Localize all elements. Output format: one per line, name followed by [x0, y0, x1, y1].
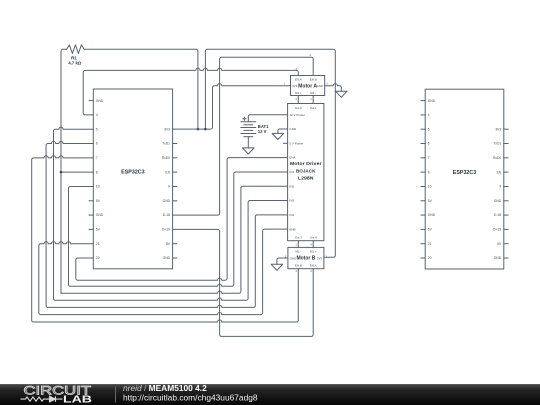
svg-text:GND: GND: [289, 127, 297, 131]
svg-text:EN: EN: [497, 170, 502, 174]
svg-text:D-18: D-18: [163, 213, 170, 217]
wire bottom row 3 to IN2: [61, 186, 288, 293]
wire net pin6 to IN4: [46, 141, 288, 307]
svg-text:Motor A: Motor A: [298, 83, 317, 89]
CircuitLab logo symbols (resistor + diode): [21, 396, 63, 402]
svg-text:TxD1: TxD1: [493, 142, 501, 146]
svg-text:GND: GND: [163, 199, 171, 203]
svg-text:Out 2: Out 2: [295, 106, 302, 110]
svg-text:EN A: EN A: [295, 77, 302, 81]
svg-text:6: 6: [96, 142, 98, 146]
wire net 3V3 to Motor B 3V3 via top: [205, 49, 335, 257]
footer bar: [0, 384, 540, 405]
svg-text:4.7 kΩ: 4.7 kΩ: [68, 61, 81, 66]
svg-text:GND: GND: [96, 213, 104, 217]
wire net pin20 to ENA: [76, 158, 288, 281]
svg-text:4: 4: [96, 113, 98, 117]
motor module M2 Motor B: [288, 247, 324, 268]
svg-text:IN1: IN1: [289, 170, 294, 174]
svg-text:4: 4: [428, 113, 430, 117]
svg-text:6: 6: [428, 142, 430, 146]
svg-text:GND: GND: [163, 256, 171, 260]
svg-text:12 V: 12 V: [258, 129, 267, 134]
svg-text:Out 1: Out 1: [310, 106, 317, 110]
node junction at pin 8: [60, 171, 63, 174]
wire battery positive to 12 V Power: [248, 115, 287, 122]
ground: battery negative: [247, 137, 249, 148]
svg-text:7: 7: [428, 156, 430, 160]
svg-text:M1 -: M1 -: [310, 91, 316, 95]
svg-text:GND: GND: [428, 99, 436, 103]
wire net pin10 to IN1: [69, 172, 288, 286]
svg-text:BOJACK: BOJACK: [296, 169, 316, 175]
svg-text:IN4: IN4: [289, 213, 294, 217]
svg-text:IN3: IN3: [289, 199, 294, 203]
svg-text:10: 10: [428, 185, 432, 189]
svg-text:10: 10: [96, 185, 100, 189]
wire net pin7 to Motor B EN B: [32, 156, 299, 322]
svg-text:L298N: L298N: [298, 175, 314, 181]
svg-text:nreid / MEAM5100 4.2: nreid / MEAM5100 4.2: [123, 383, 207, 393]
svg-text:21: 21: [96, 242, 100, 246]
svg-text:5: 5: [96, 127, 98, 131]
svg-text:EN B: EN B: [295, 264, 302, 268]
svg-text:3V3: 3V3: [317, 256, 323, 260]
wire net R1 right to 3V3 rail: [84, 49, 198, 129]
svg-text:EN: EN: [165, 170, 170, 174]
ground: motor driver GND pin: [278, 129, 288, 133]
svg-text:http://circuitlab.com/chg43uu6: http://circuitlab.com/chg43uu67adg8: [123, 393, 258, 403]
svg-text:RxD0: RxD0: [493, 156, 501, 160]
node junction 3V3 rail A: [197, 128, 200, 131]
resistor R1 4.7 kOhm: [67, 45, 85, 54]
wire net D+19 to Motor B EN A: [173, 229, 314, 336]
footer separator: [115, 387, 117, 403]
svg-text:EN B: EN B: [310, 77, 317, 81]
wire pin 8 stub to junction: [61, 171, 93, 173]
wire net pin4 to Motor A EN A: [83, 68, 298, 115]
svg-text:RxD0: RxD0: [162, 156, 170, 160]
svg-text:20: 20: [428, 256, 432, 260]
svg-text:3V3: 3V3: [164, 127, 170, 131]
svg-text:9: 9: [168, 185, 170, 189]
svg-text:21: 21: [428, 242, 432, 246]
svg-text:BAT1: BAT1: [258, 124, 269, 129]
svg-text:M1 +: M1 +: [310, 250, 317, 254]
battery BAT1 12 V: [241, 121, 256, 123]
ground: Motor B GND pin: [277, 258, 288, 264]
wire net R1-pin8: R1 left lead down left side: [61, 49, 67, 293]
svg-text:D-18: D-18: [494, 213, 501, 217]
wire 3V3 rail: chip1 3V3 pin to Motor A 3V3: [173, 84, 291, 130]
svg-text:3V3: 3V3: [495, 127, 501, 131]
IC U2 ESP32C3 (right microcontroller, unconnected): [425, 89, 504, 269]
svg-text:12 V Power: 12 V Power: [289, 113, 305, 117]
svg-text:M1 +: M1 +: [295, 91, 302, 95]
svg-text:9: 9: [499, 185, 501, 189]
motor driver U3 BOJACK L298N: [288, 104, 324, 241]
svg-text:GND: GND: [290, 256, 296, 260]
svg-text:Out 3: Out 3: [295, 236, 302, 240]
svg-text:8: 8: [96, 170, 98, 174]
svg-text:GND: GND: [96, 99, 104, 103]
svg-text:IN2: IN2: [289, 184, 294, 188]
svg-text:TxD1: TxD1: [162, 142, 170, 146]
svg-text:GND: GND: [317, 84, 323, 88]
svg-text:Motor Driver: Motor Driver: [290, 161, 322, 167]
svg-text:GND: GND: [428, 213, 436, 217]
svg-text:Motor B: Motor B: [297, 256, 316, 262]
wire Motor A outputs to driver Out1/Out2: [298, 96, 313, 104]
svg-text:D+19: D+19: [493, 228, 501, 232]
svg-text:Out 4: Out 4: [310, 236, 317, 240]
svg-text:ESP32C3: ESP32C3: [121, 170, 145, 176]
wire net pin21 to ENB: [39, 229, 288, 314]
svg-text:8: 8: [428, 170, 430, 174]
node junction 3V3 rail B: [204, 128, 207, 131]
wire driver Out3/Out4 to Motor B: [298, 241, 313, 248]
svg-text:5 V Power: 5 V Power: [289, 141, 303, 145]
svg-text:M1 -: M1 -: [295, 250, 301, 254]
wire net pin5 to IN3: [54, 127, 288, 300]
svg-text:7: 7: [96, 156, 98, 160]
ground: Motor A GND pin: [325, 84, 342, 92]
svg-text:GND: GND: [494, 199, 502, 203]
svg-text:ENB: ENB: [289, 227, 295, 231]
svg-text:3V3: 3V3: [292, 84, 298, 88]
svg-text:D+19: D+19: [162, 228, 170, 232]
svg-text:EN A: EN A: [310, 264, 317, 268]
svg-text:20: 20: [96, 256, 100, 260]
svg-text:ESP32C3: ESP32C3: [453, 170, 477, 176]
IC U1 ESP32C3 (left microcontroller): [93, 89, 172, 269]
svg-text:5: 5: [428, 127, 430, 131]
wire net D-18 to Motor A EN B: [173, 57, 314, 215]
svg-text:LAB: LAB: [63, 394, 92, 405]
svg-text:ENA: ENA: [289, 156, 295, 160]
motor module M1 Motor A: [291, 76, 325, 96]
svg-text:GND: GND: [494, 256, 502, 260]
